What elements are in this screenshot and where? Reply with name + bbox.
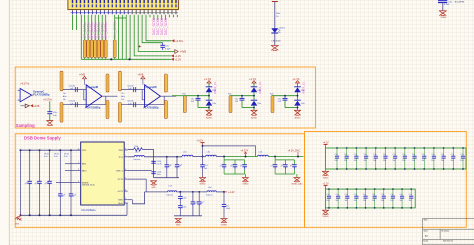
svg-text:AGND: AGND [206,117,212,120]
net labels U4 left [121,93,125,101]
svg-text:10n: 10n [383,160,386,162]
inductor L1 [128,152,182,162]
ground row2 [175,219,182,227]
ground SGND row2 right [221,219,228,227]
power +4VB for U3 [79,73,87,85]
svg-text:C1x: C1x [381,194,384,196]
wire IC pin to node [128,170,152,172]
ground below D22 [206,110,213,119]
svg-text:10n: 10n [441,160,444,162]
svg-text:10n: 10n [412,160,415,162]
svg-text:C4x: C4x [235,98,239,100]
section box: DSB dome supply [15,134,304,228]
svg-text:LED1: LED1 [279,27,285,29]
svg-text:GND: GND [151,187,156,189]
svg-text:10r: 10r [63,99,66,101]
resistor U4b bottom-left [118,103,121,123]
svg-text:D3x: D3x [258,90,262,92]
svg-text:10n: 10n [399,200,402,202]
svg-text:6: 6 [125,169,126,171]
svg-text:PLA75188Dp: PLA75188Dp [33,93,50,97]
connector right-side stub wires and net labels [150,15,177,35]
svg-text:+4.27Vs: +4.27Vs [43,99,53,102]
svg-text:10n: 10n [460,160,463,162]
input filter capacitors C41-C43 [21,150,52,215]
svg-text:C0C45: C0C45 [69,101,76,103]
ground below D26 [294,110,301,119]
svg-text:Bead/FB1: Bead/FB1 [455,1,466,3]
power +4VB for U4 [137,73,145,85]
capacitor C21 [191,98,201,103]
resistor U3a top-left [60,71,63,91]
svg-text:LED/LED: LED/LED [272,40,282,42]
svg-text:R2x: R2x [270,94,274,96]
svg-text:A0n: A0n [63,95,67,98]
svg-text:DAC_SCK0: DAC_SCK0 [164,18,168,35]
svg-text:10n: 10n [451,160,454,162]
svg-text:2: 2 [125,201,126,203]
svg-text:+4.2V_DAC: +4.2V_DAC [288,149,301,152]
net labels U3 left [63,93,67,101]
wire to +1.2V port [134,15,181,58]
resistor U4e bottom-right [164,101,167,119]
svg-text:VREF_CL: VREF_CL [213,81,217,94]
svg-text:C1x: C1x [354,154,357,156]
svg-text:100n: 100n [182,207,186,209]
svg-text:L5d: L5d [169,185,172,187]
resistor R22 [228,94,232,113]
ground below LED [271,46,279,51]
svg-text:10n: 10n [326,200,329,202]
svg-text:10n: 10n [344,160,347,162]
section box: decoupling [305,132,467,228]
svg-text:DSB Dome Supply: DSB Dome Supply [24,136,61,141]
svg-text:C1x: C1x [460,154,463,156]
svg-text:Inductor: Inductor [134,158,141,161]
capacitor C7 row2 [222,192,231,219]
svg-text:C1x: C1x [412,154,415,156]
diode D22 [206,100,216,110]
svg-text:C1x: C1x [431,154,434,156]
port +1.2V row2 [223,191,235,194]
red port near riser [139,45,142,47]
capacitor bank rails [326,189,416,208]
ground SGND under C1d [199,178,206,186]
svg-text:OpampIB: OpampIB [87,86,98,89]
svg-text:+4.27A: +4.27A [241,149,249,152]
svg-text:10n: 10n [363,200,366,202]
svg-text:10n: 10n [390,200,393,202]
svg-text:D4x: D4x [258,103,262,105]
svg-text:D4x: D4x [213,103,217,105]
svg-text:AGND: AGND [295,117,301,120]
svg-text:C1x: C1x [373,154,376,156]
svg-text:3.3uF: 3.3uF [165,48,171,50]
svg-text:10n: 10n [363,160,366,162]
svg-text:SGND_DAC: SGND_DAC [291,182,303,185]
wire: input rail to IC [20,149,81,158]
svg-text:C1x: C1x [383,154,386,156]
svg-text:Date: Date [424,240,429,243]
wire node to diodes [231,95,255,108]
svg-text:OpampIB: OpampIB [146,86,157,89]
power port +5.2V [197,140,205,158]
svg-text:+1.7A: +1.7A [293,77,300,81]
svg-text:SGND: SGND [323,177,329,179]
power port VSS arrow [15,215,22,225]
svg-text:C1x: C1x [372,194,375,196]
svg-text:D3x: D3x [301,90,305,92]
capacitor group 2 (1.1uF 100nF 100nF) [270,160,303,185]
svg-text:10n: 10n [336,200,339,202]
svg-text:L3d: L3d [207,151,210,153]
capacitor C90 top right [438,1,465,11]
section title Sampling [16,123,35,128]
resistor U4a top-left [118,71,121,91]
inductor L6 [206,187,224,196]
power +1.7A for D23 [249,77,262,94]
wire node to diodes [273,95,298,108]
diode D5 with +4VB port [21,104,40,108]
svg-text:10n: 10n [334,160,337,162]
svg-text:2: 2 [78,162,79,164]
resistor U4d top-right [164,74,167,92]
capacitor C9 with +4.27Vs [43,99,58,121]
svg-text:C1x: C1x [326,194,329,196]
svg-text:D3x: D3x [213,90,217,92]
node +4.27A with capacitor group [223,149,248,160]
svg-text:10n: 10n [409,200,412,202]
svg-text:PLA75188Dp: PLA75188Dp [85,106,101,109]
resistor R10 [128,146,154,178]
resistor R23 [270,94,274,113]
ground below C9 [46,121,53,126]
svg-text:R2x: R2x [228,94,232,96]
svg-text:C1x: C1x [390,194,393,196]
svg-text:8: 8 [125,148,126,150]
svg-text:Number: Number [442,229,450,232]
svg-text:R1d: R1d [135,146,139,148]
capacitor C23 [278,98,288,103]
power +1.7A for D21 [204,77,217,94]
svg-text:A0n: A0n [121,95,125,98]
wire op-amp outputs to clamp cells [172,95,185,97]
capacitor bank C30 (14 caps) [334,147,465,170]
svg-text:SGND: SGND [441,17,447,19]
svg-text:SGND: SGND [323,216,329,218]
svg-text:+1.2V: +1.2V [175,58,182,61]
svg-text:100n: 100n [157,174,161,176]
resistor U3d top-right [106,74,109,92]
capacitor group 1 (1.1uF 100nF 100nF) [219,160,249,185]
svg-text:PLA75188Dp: PLA75188Dp [144,106,160,109]
title block text [423,218,453,245]
svg-text:C0C45: C0C45 [127,101,134,103]
svg-text:Inductor: Inductor [206,193,213,196]
inductor L3 [206,151,258,156]
capacitor bank rails [326,148,467,169]
ground below C90 [439,11,447,16]
series capacitor U3c2 [63,101,106,108]
ground GND under cluster [150,181,157,189]
svg-text:C1x: C1x [344,154,347,156]
svg-text:10r: 10r [121,99,124,101]
title block [423,218,474,245]
svg-text:+1.7A: +1.7A [204,77,211,81]
ground rail bottom [20,214,128,216]
svg-text:2.0x: 2.0x [44,156,48,158]
diode D26 [294,100,304,110]
diode D24 [251,100,261,110]
svg-text:C1x: C1x [363,194,366,196]
capacitor C22 [235,98,245,103]
svg-text:C0C34: C0C34 [69,85,76,87]
svg-text:VREF_CL: VREF_CL [302,81,306,94]
op-amp U3 [84,85,118,110]
capacitors at node row2 [174,191,205,216]
svg-text:C1x: C1x [402,154,405,156]
wire row2 from IC [127,179,146,215]
series capacitor U4c2 [121,101,164,108]
svg-text:L4d: L4d [259,151,262,153]
inductor L5 [145,185,207,196]
svg-text:2.0x: 2.0x [54,156,58,158]
svg-text:2.0x: 2.0x [64,156,68,158]
svg-text:C1x: C1x [441,154,444,156]
op-amp U2 OpampC [18,83,50,102]
power port +4.2V [323,142,330,148]
section box: sampling [15,67,315,128]
svg-text:+4.27Vs: +4.27Vs [20,83,30,86]
op-amp U4 [142,85,176,110]
svg-text:C0C34: C0C34 [127,85,134,87]
svg-text:10n: 10n [373,160,376,162]
svg-text:C1x: C1x [336,194,339,196]
svg-text:+3.3Vs: +3.3Vs [175,40,184,43]
svg-text:PY11: PY11 [118,179,124,181]
svg-text:100n: 100n [182,197,186,199]
svg-text:D4x: D4x [301,103,305,105]
resistor U3b bottom-left [60,103,63,123]
svg-text:1NP_1: 1NP_1 [116,171,123,173]
svg-text:10n: 10n [431,160,434,162]
svg-text:10n: 10n [393,160,396,162]
svg-text:C1x: C1x [393,154,396,156]
svg-text:C1x: C1x [334,154,337,156]
svg-text:5: 5 [125,177,126,179]
svg-text:L6d: L6d [208,187,211,189]
wire +5.2V rail jog [203,146,256,157]
svg-text:10n: 10n [381,200,384,202]
svg-text:10n: 10n [402,160,405,162]
series capacitor U4c1 [121,85,144,92]
svg-text:+4VB: +4VB [33,105,39,108]
svg-text:0.1uF: 0.1uF [444,4,450,6]
svg-text:CLK_ADC0x: CLK_ADC0x [113,20,117,38]
connector J1 [68,0,179,12]
svg-text:C4x: C4x [278,98,282,100]
harness entry arrows below connector [71,11,178,14]
ground below D24 [251,110,258,119]
svg-text:VSS: VSS [15,224,20,226]
resistor U3e bottom-right [106,101,109,119]
svg-text:Inductor: Inductor [167,194,174,197]
ground SGND [322,169,329,179]
diode D25 [294,87,304,100]
svg-text:1uF: 1uF [53,115,57,117]
svg-text:1MODE_SxTx: 1MODE_SxTx [82,185,95,187]
svg-text:10n: 10n [345,200,348,202]
svg-text:C1x: C1x [451,154,454,156]
svg-text:SGND: SGND [243,183,249,185]
diode D21 [206,87,216,100]
svg-text:+1.2V: +1.2V [175,55,182,58]
svg-text:VREF_CL: VREF_CL [258,81,262,94]
svg-text:10n: 10n [354,200,357,202]
svg-text:SGND: SGND [221,224,227,226]
sheet border left edge [8,0,10,245]
svg-text:SPI_DAT0x: SPI_DAT0x [104,22,108,39]
wire to +5VB diode [138,15,186,54]
svg-text:BXD: BXD [118,200,123,202]
svg-text:10n: 10n [422,160,425,162]
svg-text:+1.7A: +1.7A [249,77,256,81]
svg-text:2.2uF: 2.2uF [157,164,163,166]
svg-text:AGND: AGND [251,117,257,120]
svg-text:C1x: C1x [399,194,402,196]
svg-text:4: 4 [78,181,79,183]
power port +1.2V [323,184,330,190]
svg-text:10n: 10n [372,200,375,202]
IC U5 regulator [77,142,128,212]
svg-text:L2d: L2d [183,151,186,153]
svg-text:GND: GND [176,224,181,226]
svg-text:4: 4 [125,189,126,191]
capacitor C1d at +5.2V node [200,157,208,178]
svg-text:3: 3 [125,198,126,200]
svg-text:C1x: C1x [345,194,348,196]
svg-text:C1x: C1x [422,154,425,156]
svg-text:10n: 10n [354,160,357,162]
svg-text:+4VB: +4VB [180,51,187,54]
svg-text:+1.2V: +1.2V [228,191,235,194]
diode D23 [251,87,261,100]
svg-text:Sampling: Sampling [16,123,35,128]
svg-text:2013-9-13: 2013-9-13 [443,240,454,242]
resistor array R1-R8 [83,40,116,58]
ground SGND [322,208,329,218]
capacitor bank C50 (10 caps) [326,188,413,209]
svg-text:RxD: RxD [119,203,124,205]
svg-text:L1d: L1d [135,152,138,154]
capacitor C5 [142,15,171,51]
svg-text:IB12: IB12 [82,171,87,173]
series capacitor U3c1 [63,85,86,92]
inductor L2 [182,151,206,156]
svg-text:C1x: C1x [354,194,357,196]
capacitors cluster at IC output [151,156,183,178]
resistor R4 label [276,13,281,18]
power +1.7A for D25 [293,77,306,94]
wire bus from connector to resistor array [73,15,182,62]
svg-text:R2x: R2x [182,94,186,96]
svg-text:C1x: C1x [363,154,366,156]
svg-text:3: 3 [78,169,79,171]
inductor L4 [258,151,304,156]
resistor R21 [182,94,186,113]
svg-text:Mxx1626Eda: Mxx1626Eda [82,209,97,212]
capacitors C45 C46 [58,150,78,215]
wire node to diodes [185,95,209,108]
node +4.2V_DAC with capacitor group [274,149,300,160]
LED D1 [271,27,285,45]
power port +5V [272,2,278,29]
wires to IC left pins [56,164,77,183]
svg-text:C1x: C1x [409,194,412,196]
section title DSB Dome Supply [24,136,61,141]
svg-text:+DY1: +DY1 [117,191,123,193]
svg-text:SGND: SGND [200,184,206,186]
svg-text:C4x: C4x [191,98,195,100]
net labels above resistor array [83,20,117,38]
svg-text:7: 7 [125,155,126,157]
wire to +3.3Vs port [146,15,184,43]
